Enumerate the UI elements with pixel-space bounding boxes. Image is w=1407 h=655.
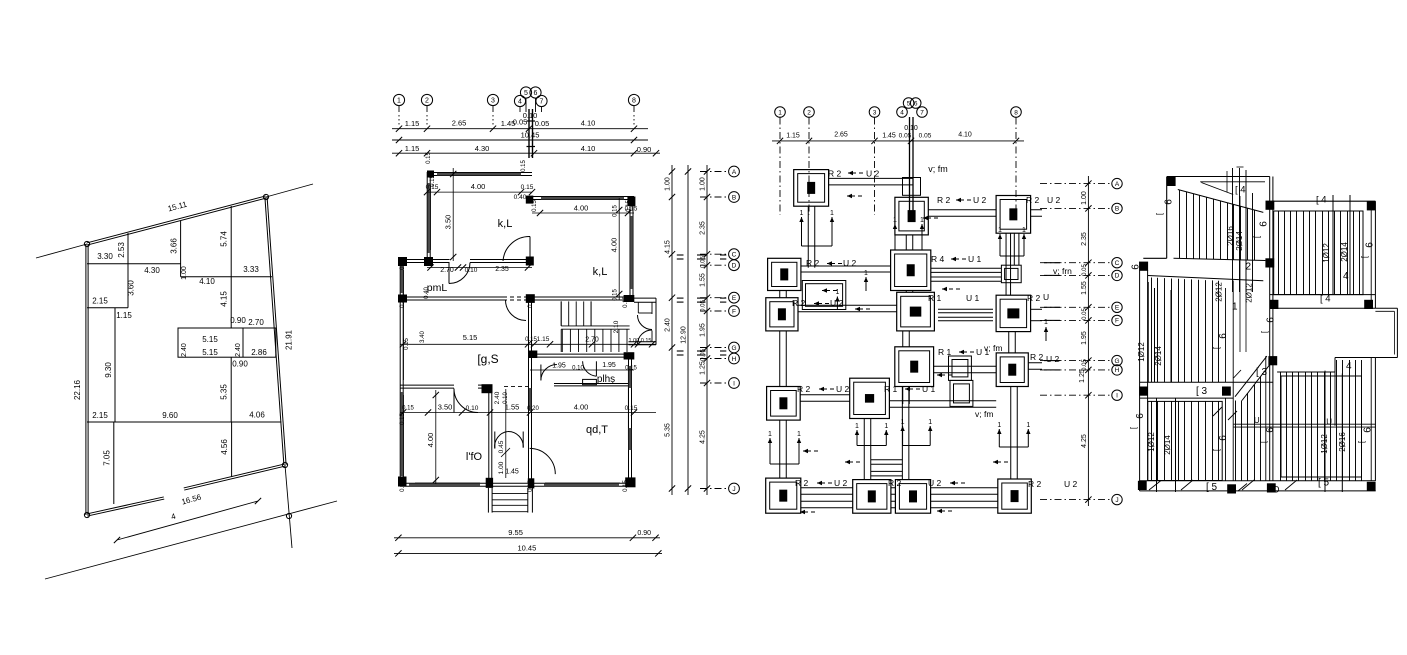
svg-text:U 2: U 2	[928, 478, 942, 488]
svg-text:1.55: 1.55	[700, 273, 707, 287]
svg-text:E: E	[1115, 305, 1120, 312]
panel P2 long rebar verticals	[1154, 288, 1156, 382]
porch: top wall extension	[634, 297, 656, 299]
svg-text:v; fm: v; fm	[984, 343, 1002, 353]
footing F2 col4/rowB	[895, 197, 928, 235]
slab outline: right edge upper (double)	[1370, 201, 1372, 308]
svg-text:8: 8	[632, 98, 636, 105]
svg-text:4.10: 4.10	[581, 119, 596, 128]
svg-text:D: D	[1273, 485, 1280, 495]
footing F15 col4/rowJ	[895, 480, 930, 514]
svg-text:0.05: 0.05	[1082, 264, 1088, 276]
svg-text:4.10: 4.10	[958, 131, 972, 138]
lone arrow right of ring	[865, 277, 867, 291]
site internal line y308 (2.15)	[87, 307, 128, 309]
svg-text:6: 6	[1131, 264, 1142, 270]
site inner rectangle (5.15 x 2.40 block)	[178, 328, 276, 357]
svg-text:6: 6	[1363, 427, 1374, 433]
svg-text:[ 5: [ 5	[1318, 478, 1330, 489]
foundation top dim line	[772, 140, 1024, 142]
site plan boundary: left edge	[85, 244, 87, 515]
svg-text:U 1: U 1	[922, 384, 936, 394]
svg-text:6: 6	[1259, 221, 1270, 227]
door arc g,S upper (to corridor)	[506, 300, 527, 321]
svg-text:6: 6	[1365, 242, 1376, 248]
svg-text:E: E	[732, 295, 737, 302]
stairs landing and rails	[561, 325, 629, 327]
svg-text:R 2: R 2	[828, 169, 842, 179]
svg-text:F: F	[1115, 318, 1119, 325]
beam col4 F2-F5	[905, 235, 907, 250]
svg-text:22.16: 22.16	[73, 379, 82, 400]
floor plan right grid bubbles A-J	[729, 166, 740, 177]
site plan boundary: top edge (double line) with extension	[87, 198, 266, 245]
svg-text:2.35: 2.35	[495, 266, 509, 273]
svg-text:0.10: 0.10	[523, 111, 538, 120]
svg-text:3: 3	[491, 98, 495, 105]
svg-text:1.00: 1.00	[181, 266, 188, 280]
svg-text:R 2: R 2	[937, 195, 951, 205]
beam rowJ lower pair	[801, 507, 853, 509]
svg-text:v; fm: v; fm	[928, 164, 948, 174]
stairs lower flight left boundary	[560, 329, 562, 352]
frontage line 16.56	[117, 501, 258, 540]
svg-text:0.40: 0.40	[400, 296, 406, 308]
dim line mid y344 (5.15 / 2.70)	[400, 343, 656, 345]
wall: E/F horizontal wall left segment	[400, 299, 503, 301]
svg-text:0.90: 0.90	[637, 145, 652, 154]
beam col2 F1 down	[807, 206, 809, 268]
svg-text:4.00: 4.00	[610, 238, 619, 253]
svg-text:C: C	[732, 252, 737, 259]
svg-text:1: 1	[928, 419, 932, 426]
svg-text:v; fm: v; fm	[975, 409, 993, 419]
foundation grid centerlines vertical	[779, 118, 781, 216]
svg-text:1: 1	[800, 210, 804, 217]
svg-text:9.30: 9.30	[104, 362, 113, 378]
grid centerline dashes below bubbles	[398, 115, 400, 125]
beam right of F12	[1028, 368, 1042, 370]
svg-text:C: C	[1115, 260, 1120, 267]
site internal vline x181 (3.66)	[180, 221, 182, 277]
svg-text:H: H	[732, 356, 737, 363]
svg-text:3.66: 3.66	[170, 238, 179, 254]
porch: bottom wall	[629, 341, 657, 343]
window line top right section	[545, 199, 624, 201]
floor plan top dimension line row2 (10.45)	[392, 139, 648, 141]
svg-text:12.90: 12.90	[681, 326, 688, 344]
beam col1 F6-F9	[779, 331, 781, 387]
svg-text:2Ø14: 2Ø14	[1235, 231, 1244, 251]
panel P3 border rect	[1148, 401, 1222, 480]
svg-text:G: G	[731, 345, 736, 352]
site plan boundary: right edge	[265, 197, 284, 465]
panel P2 left border	[1147, 282, 1149, 382]
svg-text:1.00: 1.00	[665, 177, 672, 191]
svg-text:1: 1	[797, 431, 801, 438]
wall: left wall of k,L section	[426, 172, 428, 261]
slab beam band row G/H left	[1140, 381, 1273, 383]
door arc qd,T	[530, 448, 556, 474]
wall: E/F horizontal wall right segment	[528, 299, 634, 301]
svg-text:2Ø16: 2Ø16	[1226, 226, 1235, 246]
svg-text:1Ø12: 1Ø12	[1137, 342, 1146, 362]
dashed line H/I	[504, 386, 528, 388]
window poche x530 wall	[529, 388, 531, 411]
svg-text:U 2: U 2	[866, 169, 880, 179]
svg-text:6: 6	[914, 100, 918, 107]
svg-text:B: B	[1115, 206, 1119, 213]
floor plan grid bubble 4	[514, 95, 525, 106]
svg-text:U 2: U 2	[843, 258, 857, 268]
floor plan columns	[427, 171, 434, 178]
arrow in beam ring	[836, 297, 838, 310]
site internal vline x115 (9.30) and 1.15 label	[114, 308, 116, 422]
wall: below-stairs G/H wall	[530, 356, 634, 358]
svg-text:qd,T: qd,T	[586, 424, 608, 436]
wall: right outer wall lower	[628, 356, 630, 486]
svg-text:0.15: 0.15	[400, 413, 406, 425]
svg-text:1Ø12: 1Ø12	[1147, 432, 1156, 452]
svg-text:3.30: 3.30	[97, 252, 113, 261]
svg-text:6: 6	[1218, 333, 1229, 339]
svg-text:R 2: R 2	[1026, 195, 1040, 205]
footing F10 col3/rowI	[850, 378, 890, 418]
svg-text:10.45: 10.45	[518, 544, 537, 553]
panel P5 inner rect (top-right)	[1274, 211, 1363, 295]
svg-text:4.15: 4.15	[665, 240, 672, 254]
wall: H/I partition right of door	[478, 387, 492, 389]
svg-text:0.40: 0.40	[514, 194, 527, 201]
site internal vline x231 below rect (5.35)	[230, 357, 232, 422]
slab outline: bottom edge (double)	[1140, 480, 1376, 482]
top-left gable triangle lines	[1200, 181, 1265, 183]
svg-text:[ 5: [ 5	[1206, 482, 1218, 493]
slab outline: right section top	[1273, 200, 1376, 202]
beam col4 F5-F7	[905, 291, 907, 293]
stair flight slant lines center	[1235, 356, 1267, 397]
site internal vline x232 (4.56)	[231, 422, 233, 477]
door arc corridor right	[583, 361, 597, 376]
svg-text:0.10: 0.10	[572, 366, 584, 372]
svg-text:A: A	[732, 169, 737, 176]
svg-text:D: D	[1115, 273, 1120, 280]
svg-text:1: 1	[998, 227, 1002, 234]
beam rowCD F4-F5 via col2	[801, 271, 891, 273]
svg-text:4.00: 4.00	[426, 433, 435, 448]
svg-text:0.15: 0.15	[521, 184, 534, 191]
wall: C/D horizontal wall left of door	[400, 262, 450, 264]
svg-text:0.45: 0.45	[498, 440, 505, 453]
floor plan grid bubble 5	[520, 87, 531, 98]
slab beam band below P5 (row E/F)	[1270, 294, 1376, 296]
beam rowJ upper	[801, 493, 853, 495]
beam rowB right of F3	[1031, 215, 1042, 217]
dim vline x436 (4.00 left wall)	[435, 390, 437, 484]
svg-text:4.30: 4.30	[475, 144, 490, 153]
wall: C/D horizontal wall right of door	[470, 262, 532, 264]
window dim vline left (3.50)	[452, 168, 454, 261]
panel P3 long rebar verticals	[1156, 398, 1158, 492]
stair junction box lower	[950, 380, 973, 406]
slash between stair slants	[1234, 370, 1242, 378]
beam rowA from F1 to col4	[829, 184, 913, 186]
svg-text:5: 5	[524, 90, 528, 97]
wall: top of k,L left section	[427, 175, 532, 177]
svg-text:0.05: 0.05	[701, 256, 707, 268]
svg-text:J: J	[1115, 497, 1118, 504]
svg-text:2.40: 2.40	[665, 318, 672, 332]
floor plan grid bubble 7	[536, 95, 547, 106]
svg-text:2.40: 2.40	[235, 343, 242, 357]
beam col8 F3-junction-F8	[1005, 233, 1007, 295]
window poche left k,L wall	[428, 183, 430, 253]
svg-text:1: 1	[397, 98, 401, 105]
svg-text:4.00: 4.00	[471, 182, 486, 191]
svg-text:1: 1	[1232, 302, 1238, 313]
floor plan grid bubble 2	[421, 94, 432, 105]
panel P1 hatch (top-left trapezoid)	[1179, 190, 1181, 258]
svg-text:R 4: R 4	[931, 254, 945, 264]
svg-text:0.15: 0.15	[528, 296, 534, 308]
svg-text:0.10: 0.10	[465, 267, 478, 274]
svg-text:J: J	[732, 486, 735, 493]
site internal line y264 (3.30 / 4.30)	[87, 263, 181, 265]
svg-text:1: 1	[997, 422, 1001, 429]
svg-text:B: B	[732, 194, 736, 201]
footing F14 col3/rowJ	[853, 480, 891, 514]
svg-text:1: 1	[901, 419, 905, 426]
dashed opening in E/F wall	[503, 296, 528, 298]
svg-text:2Ø12: 2Ø12	[1215, 282, 1224, 302]
svg-text:1: 1	[1026, 422, 1030, 429]
svg-text:0.90: 0.90	[637, 530, 651, 537]
svg-text:5.74: 5.74	[220, 231, 229, 247]
svg-text:pmL: pmL	[427, 282, 448, 294]
stair junction box upper	[949, 356, 972, 380]
svg-text:5.15: 5.15	[202, 348, 218, 357]
beam rowGH F9-F10	[800, 400, 850, 402]
stair ladder rung upper	[871, 463, 903, 465]
svg-text:0.15: 0.15	[521, 160, 527, 172]
svg-text:0.15: 0.15	[623, 480, 629, 492]
long beam line with U marks	[1234, 423, 1376, 425]
panel P3 hatch (bottom-left)	[1151, 401, 1153, 480]
svg-text:2.65: 2.65	[834, 131, 848, 138]
stairs upper flight treads	[560, 301, 562, 326]
svg-text:0.90: 0.90	[232, 360, 248, 369]
interior dim line below C/D wall	[427, 267, 532, 269]
wall: corridor partition y384.7	[554, 385, 630, 387]
door arc porch lower leaf	[638, 330, 653, 344]
dim line y412.5 (3.50 / 1.55 / 4.00)	[400, 412, 656, 414]
window poche right wall lower segment1	[629, 366, 632, 388]
floor plan top dimension line row1	[392, 128, 648, 130]
panel P5 hatch	[1278, 211, 1280, 295]
panel P6 hatch	[1280, 372, 1282, 481]
foundation grid bubble 4	[897, 107, 908, 118]
svg-text:U 1: U 1	[966, 293, 980, 303]
window poche top-right wall	[541, 197, 624, 200]
svg-text:1.15: 1.15	[405, 119, 420, 128]
svg-text:4: 4	[518, 99, 522, 106]
door arc porch upper leaf	[638, 315, 653, 330]
svg-text:2.10: 2.10	[613, 320, 620, 333]
svg-text:R 1: R 1	[928, 293, 942, 303]
svg-text:5.35: 5.35	[220, 384, 229, 400]
top tick lines above outline	[1237, 166, 1244, 168]
svg-text:R 1: R 1	[884, 384, 898, 394]
beam ring rectangle right of F4/F6	[802, 281, 846, 310]
slab black columns	[1167, 177, 1176, 186]
svg-text:k,L: k,L	[498, 218, 513, 230]
svg-text:2Ø14: 2Ø14	[1154, 346, 1163, 366]
slant beam band below P1	[1148, 276, 1264, 281]
slab outline: center vertical band	[1269, 177, 1271, 481]
svg-text:3.40: 3.40	[420, 331, 426, 343]
svg-text:2.40: 2.40	[494, 391, 501, 404]
foundation grid bubble 1	[775, 107, 786, 118]
svg-text:1.45: 1.45	[505, 469, 519, 476]
svg-text:2Ø12: 2Ø12	[1245, 283, 1254, 303]
svg-text:U 2: U 2	[836, 384, 850, 394]
beam F11 down to rowI beam	[902, 387, 904, 405]
wall: right outer wall upper	[629, 198, 631, 300]
panel P4b hatch (center strip lower)	[1235, 401, 1237, 481]
wall: H/I partition wall left	[400, 387, 454, 389]
bottom dim line 9.55 / 0.90	[394, 537, 660, 539]
svg-text:0.05: 0.05	[1082, 359, 1088, 371]
svg-text:3.33: 3.33	[243, 265, 259, 274]
svg-text:8: 8	[1014, 109, 1018, 116]
svg-text:G: G	[1114, 358, 1119, 365]
stairs upper flight right boundary	[590, 301, 592, 326]
footing F5 col4/rowCD	[891, 250, 931, 291]
svg-text:6: 6	[1266, 317, 1277, 323]
svg-text:1: 1	[864, 270, 868, 277]
svg-text:4.06: 4.06	[249, 411, 265, 420]
vertical dim line 4 near protrusion	[1334, 358, 1336, 426]
door arc corridor left	[541, 365, 557, 381]
svg-text:plhş: plhş	[597, 374, 615, 385]
svg-text:2Ø14: 2Ø14	[1163, 435, 1172, 455]
svg-text:1: 1	[884, 423, 888, 430]
right dim chain line 3 (x=707)	[706, 165, 708, 495]
svg-text:0.90: 0.90	[230, 316, 246, 325]
right grid leader dash-dot lines	[700, 171, 727, 173]
svg-text:1: 1	[855, 423, 859, 430]
svg-text:[ 3: [ 3	[1196, 386, 1208, 397]
svg-text:4.00: 4.00	[574, 204, 589, 213]
svg-text:9.55: 9.55	[508, 528, 523, 537]
slash marks bottom stair direction	[1181, 480, 1193, 490]
svg-text:2: 2	[1246, 262, 1252, 273]
door arc pmL	[449, 263, 470, 284]
foundation grid bubble 2	[804, 107, 815, 118]
svg-text:2: 2	[425, 98, 429, 105]
footing F4 col1/rowCD	[768, 258, 801, 290]
footing F16 col8/rowJ	[998, 479, 1032, 513]
foundation right grid bubbles	[1112, 178, 1122, 188]
svg-text:0.15: 0.15	[623, 296, 629, 308]
footing F3 col8/rowB	[996, 196, 1031, 234]
window dim line top-left (4.00)	[427, 191, 532, 193]
svg-text:7.05: 7.05	[103, 450, 112, 466]
window poche left outer wall lower	[400, 392, 403, 476]
svg-text:1.45: 1.45	[882, 132, 896, 139]
svg-text:R 2: R 2	[795, 478, 809, 488]
svg-text:0.40: 0.40	[400, 258, 406, 270]
svg-text:4: 4	[1343, 271, 1349, 282]
svg-text:[ 4: [ 4	[1316, 195, 1327, 206]
site internal vline x128 (2.53 / 3.60)	[127, 233, 129, 308]
window line left wall	[430, 185, 432, 250]
svg-text:R 1: R 1	[938, 347, 952, 357]
svg-text:3.50: 3.50	[438, 403, 453, 412]
svg-text:k,L: k,L	[593, 266, 608, 278]
svg-text:I: I	[733, 380, 735, 387]
svg-text:1.15: 1.15	[786, 132, 800, 139]
svg-text:U 1: U 1	[968, 254, 982, 264]
svg-text:5.35: 5.35	[665, 423, 672, 437]
foundation grid bubble 3	[869, 107, 880, 118]
beam rowGH F11-F12	[934, 372, 997, 374]
door arc k,L left room	[503, 236, 530, 261]
footing F9 col1/rowI	[767, 387, 801, 421]
site plan boundary: bottom edge segments	[87, 499, 164, 516]
road line bottom	[45, 501, 337, 579]
floor plan grid bubble 8	[628, 94, 639, 105]
svg-text:4.30: 4.30	[144, 266, 160, 275]
svg-text:v; frn: v; frn	[1053, 266, 1072, 276]
svg-text:2.35: 2.35	[700, 221, 707, 235]
svg-text:1.95: 1.95	[552, 363, 566, 370]
slab outline: left edge lower (double)	[1139, 262, 1141, 491]
beam rowEF right of F8	[1030, 320, 1042, 322]
svg-text:0.15: 0.15	[402, 406, 414, 412]
exterior entry steps	[487, 488, 489, 513]
site plan corner markers	[84, 241, 89, 246]
svg-text:7: 7	[540, 99, 544, 106]
wall: top of k,L right section	[529, 199, 634, 201]
footing F6 col1/rowEF	[766, 298, 798, 331]
svg-text:U: U	[1043, 292, 1049, 302]
svg-text:0.15: 0.15	[426, 152, 432, 164]
svg-text:0.15: 0.15	[613, 205, 619, 217]
svg-text:0.15: 0.15	[613, 289, 619, 301]
svg-text:0.15: 0.15	[430, 175, 436, 187]
slab outline: left edge upper	[1166, 177, 1168, 259]
svg-text:2Ø14: 2Ø14	[1340, 242, 1349, 262]
footing F7 col4/rowEF	[897, 292, 935, 331]
svg-text:4: 4	[1346, 361, 1352, 372]
svg-text:0.05: 0.05	[1082, 308, 1088, 320]
svg-text:2Ø16: 2Ø16	[1338, 432, 1347, 452]
svg-text:R 2: R 2	[797, 384, 811, 394]
svg-text:2.35: 2.35	[1081, 232, 1088, 246]
center long rebar verticals from top	[1232, 168, 1234, 292]
slab beam band top boundary of P6	[1277, 371, 1335, 373]
svg-text:[ 4: [ 4	[1235, 184, 1246, 195]
svg-text:1Ø12: 1Ø12	[1322, 243, 1331, 263]
grid bubble stems	[398, 106, 400, 112]
svg-text:[ 3: [ 3	[1256, 367, 1268, 378]
beam col1 F9-F13	[779, 420, 781, 478]
beam col8 F12-F16	[1010, 387, 1012, 480]
slab right protrusion	[1375, 307, 1397, 309]
window dim line top-right (4.00)	[532, 212, 634, 214]
svg-text:0.05: 0.05	[535, 119, 550, 128]
